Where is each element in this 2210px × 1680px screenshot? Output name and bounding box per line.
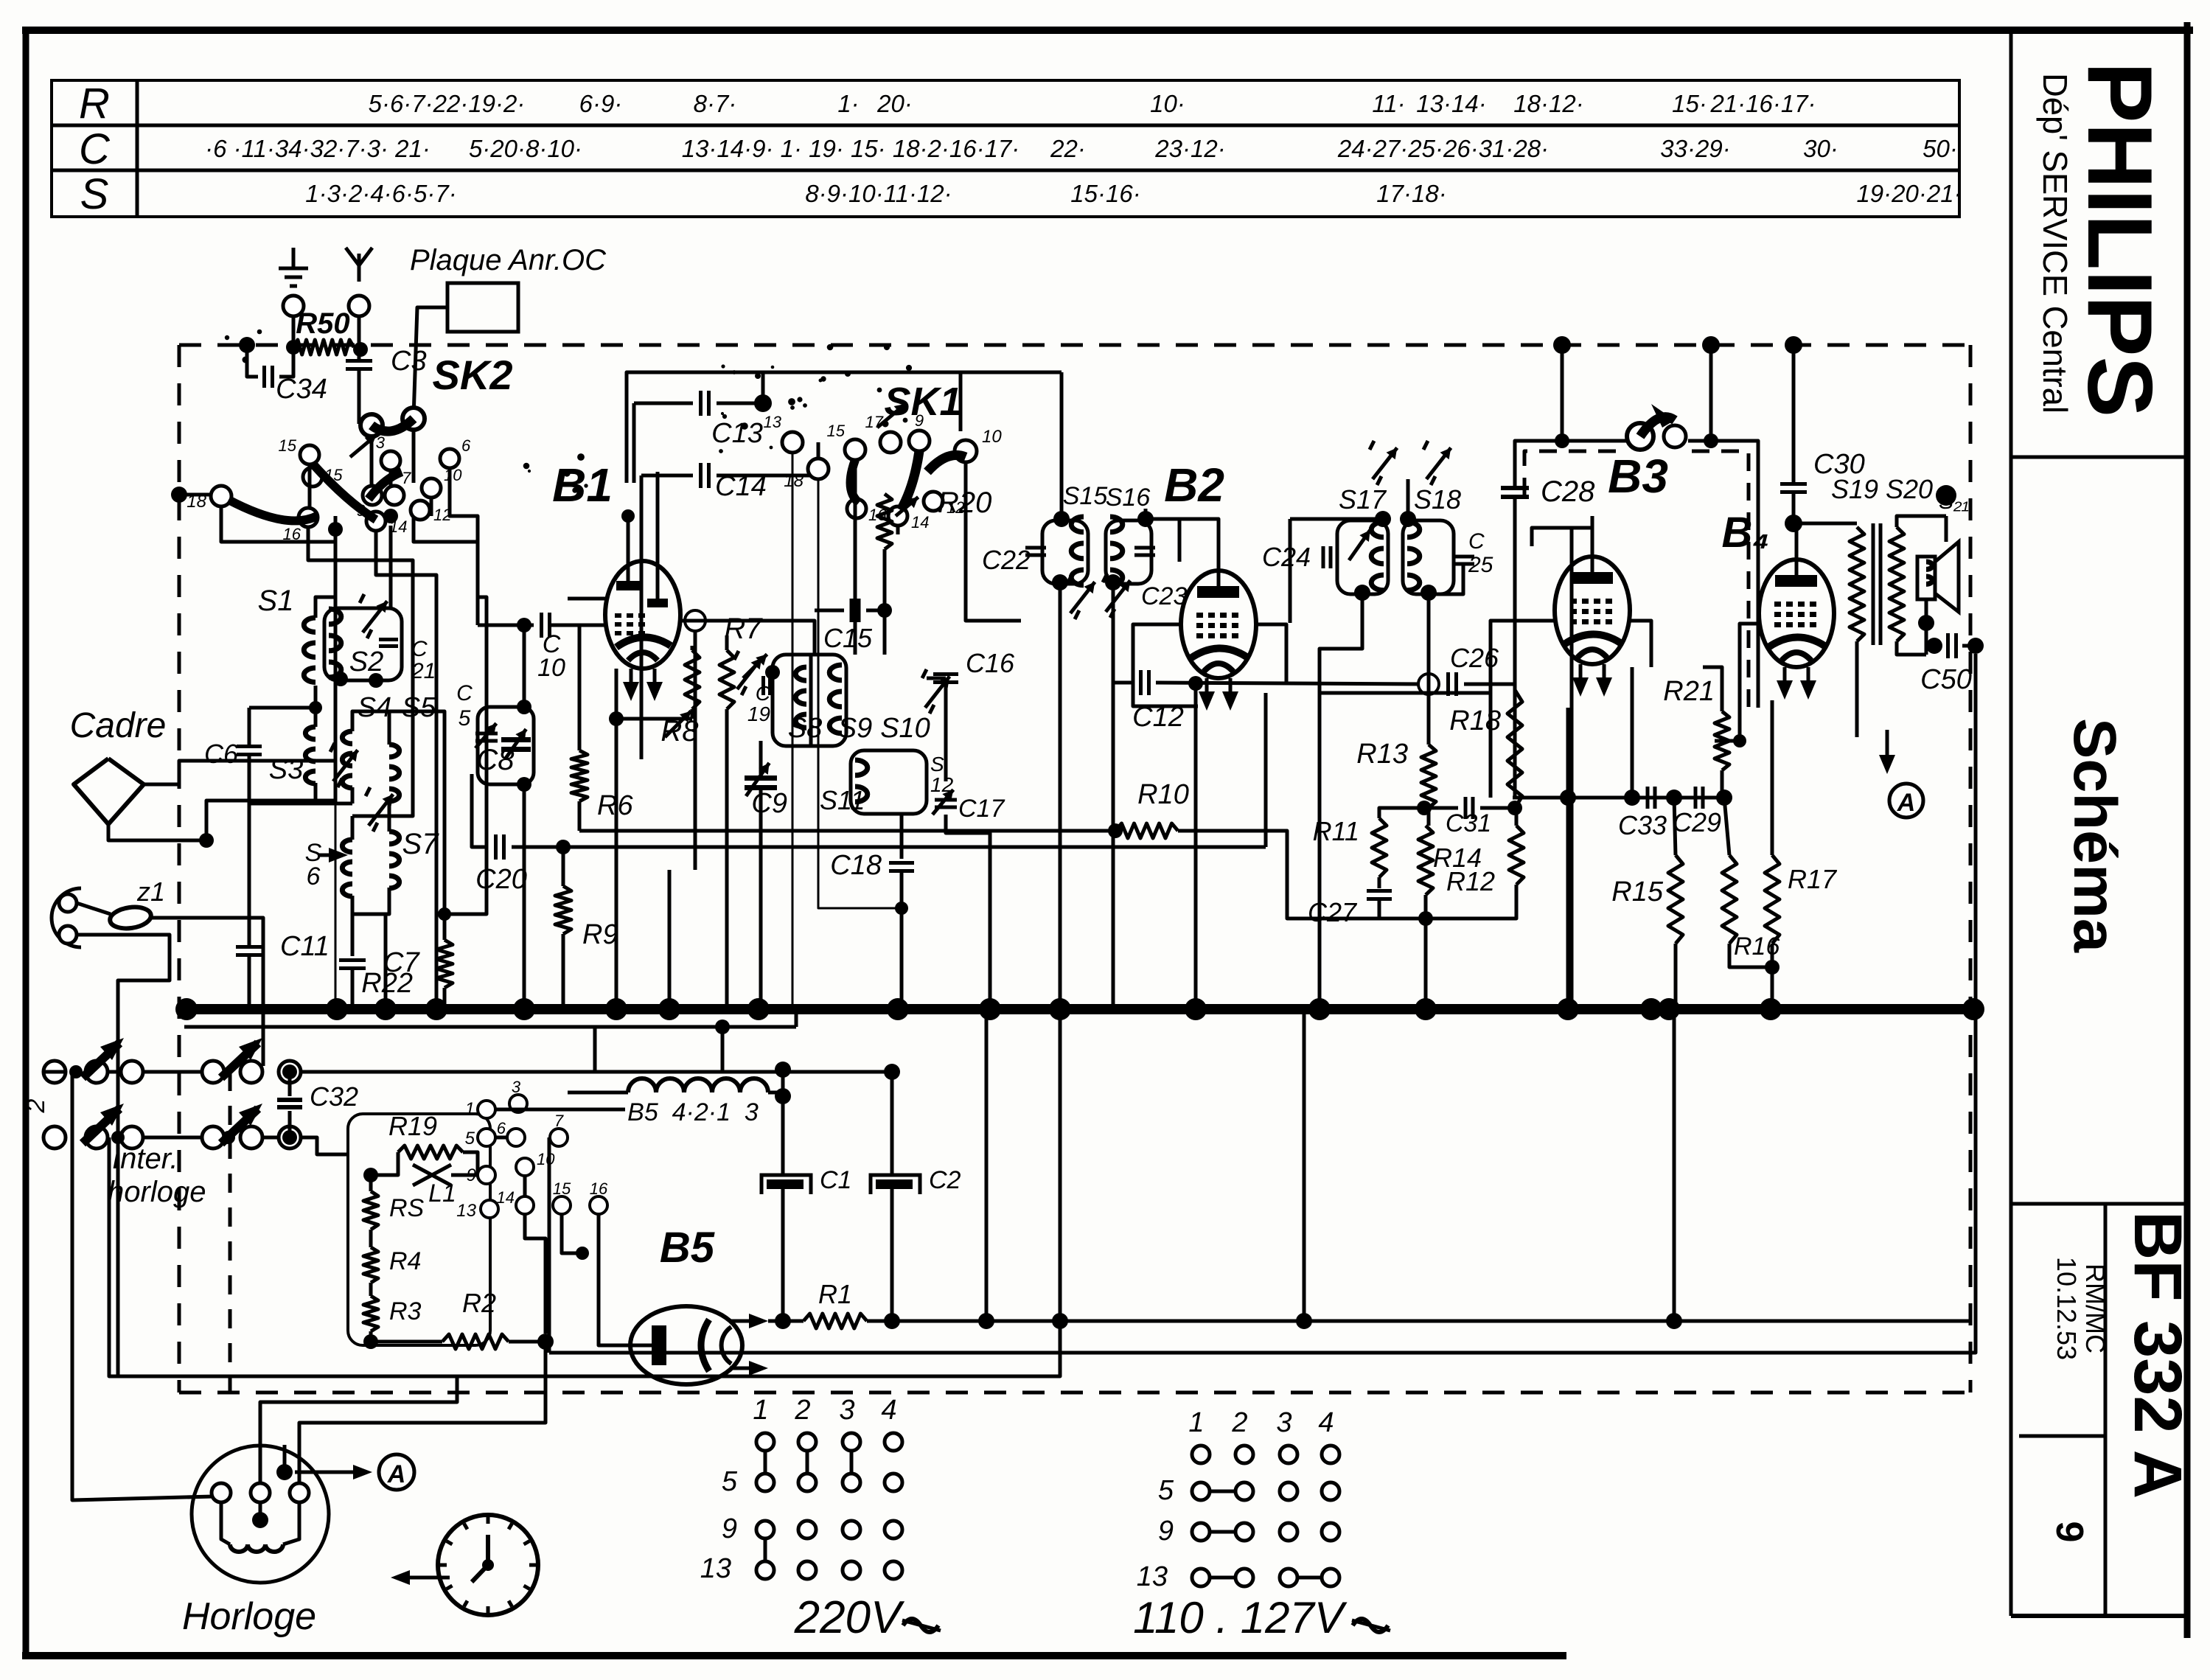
svg-text:Schéma: Schéma: [2061, 718, 2128, 953]
ground terminal: [283, 296, 304, 316]
svg-text:S5: S5: [402, 692, 436, 723]
svg-text:13: 13: [764, 413, 782, 431]
svg-text:6: 6: [461, 436, 471, 455]
svg-text:C50: C50: [1920, 664, 1972, 695]
svg-text:S10: S10: [880, 713, 930, 744]
svg-text:5: 5: [459, 706, 471, 731]
resistor R22: [443, 914, 447, 940]
wire sk2 to S1 coils: [221, 506, 335, 652]
svg-text:S₂₁: S₂₁: [1939, 489, 1969, 514]
svg-text:16: 16: [590, 1179, 608, 1198]
svg-text:C1: C1: [820, 1166, 851, 1194]
B5 heater return vertical: [548, 1137, 551, 1353]
svg-text:15·16·: 15·16·: [1070, 180, 1140, 207]
capacitor C34: [262, 366, 266, 388]
svg-text:2: 2: [1231, 1407, 1247, 1438]
svg-text:220V: 220V: [794, 1592, 905, 1643]
svg-text:Inter.: Inter.: [112, 1143, 178, 1175]
bus junction x=1622: [1185, 998, 1207, 1020]
resistor R21: [1715, 711, 1729, 770]
svg-text:9: 9: [1158, 1516, 1174, 1547]
svg-text:8·7·: 8·7·: [694, 90, 737, 117]
svg-text:BF 332 A: BF 332 A: [2120, 1211, 2195, 1499]
svg-text:Horloge: Horloge: [182, 1595, 316, 1638]
resistor R1: [775, 1313, 791, 1329]
svg-text:C27: C27: [1308, 897, 1358, 927]
table row R values: [369, 90, 1816, 117]
A terminal bottom: [276, 1464, 293, 1480]
svg-text:Dép' SERVICE Central: Dép' SERVICE Central: [2036, 73, 2074, 414]
svg-text:10: 10: [444, 466, 462, 484]
coil S2 / C21 box: [324, 608, 402, 680]
svg-text:S: S: [80, 170, 109, 218]
svg-text:4: 4: [1318, 1407, 1334, 1438]
svg-text:B5: B5: [660, 1224, 715, 1272]
bus junction x=1029: [747, 998, 770, 1020]
svg-text:5: 5: [1158, 1475, 1174, 1506]
svg-text:3: 3: [1276, 1407, 1292, 1438]
svg-text:PHILIPS: PHILIPS: [2068, 62, 2170, 417]
svg-text:C23: C23: [1141, 582, 1187, 610]
svg-text:14: 14: [497, 1188, 515, 1207]
parts table frame: [52, 80, 1959, 217]
svg-text:10.12.53: 10.12.53: [2052, 1257, 2082, 1360]
svg-text:1: 1: [1188, 1407, 1204, 1438]
svg-text:R3: R3: [389, 1297, 422, 1325]
SK1 contacts: [782, 432, 803, 453]
svg-text:R10: R10: [1137, 779, 1189, 810]
horloge feed wires: [72, 1072, 214, 1500]
svg-text:C11: C11: [280, 931, 330, 962]
resistor R13: [1421, 745, 1436, 808]
title block separator: [2009, 30, 2013, 1616]
svg-text:R13: R13: [1356, 739, 1408, 770]
svg-text:6: 6: [307, 862, 321, 890]
svg-text:B2: B2: [1164, 459, 1224, 512]
bus junction x=592: [425, 998, 447, 1020]
svg-text:10·: 10·: [1150, 90, 1185, 117]
capacitor C21: [379, 638, 398, 641]
svg-text:R21: R21: [1663, 676, 1715, 707]
svg-text:R6: R6: [597, 790, 633, 821]
resistor R8: [685, 650, 700, 709]
svg-text:B₄: B₄: [1721, 509, 1769, 557]
inner dashed partition: [229, 1072, 232, 1393]
B5 heater coil: [628, 1078, 656, 1092]
svg-text:1·3·2·4·6·5·7·: 1·3·2·4·6·5·7·: [305, 180, 456, 207]
resistor R6: [578, 625, 582, 750]
capacitor C3: [358, 349, 361, 360]
resistor R7: [719, 650, 734, 709]
bus junction x=523: [374, 998, 397, 1020]
bus junction x=1934: [1415, 998, 1437, 1020]
svg-text:13: 13: [1137, 1561, 1168, 1592]
node S18 detector: [1423, 678, 1435, 690]
resistor R12: [1509, 826, 1524, 885]
resistor R16: [1722, 855, 1737, 944]
bus junction x=836: [605, 998, 627, 1020]
vertical wires right section: [1566, 708, 1570, 1009]
svg-text:3: 3: [512, 1078, 521, 1096]
svg-text:9: 9: [467, 1165, 476, 1185]
cadre wires: [144, 761, 335, 784]
capacitor C7: [351, 914, 355, 956]
bus junction x=1343: [979, 998, 1001, 1020]
bus junction x=2402: [1760, 998, 1782, 1020]
svg-text:A: A: [387, 1460, 406, 1488]
bus junction x=2264: [1658, 998, 1680, 1020]
chassis dashed box left edge: [178, 345, 181, 1393]
capacitor C2 electrolytic: [890, 1072, 894, 1174]
svg-text:C29: C29: [1673, 807, 1721, 837]
svg-text:R11: R11: [1313, 816, 1359, 846]
svg-text:21·16·17·: 21·16·17·: [1709, 90, 1816, 117]
capacitor C26: [1446, 672, 1450, 696]
table row C values: [205, 135, 1958, 162]
bus junction x=711: [513, 998, 535, 1020]
resistor R11: [1379, 808, 1424, 818]
svg-text:C3: C3: [391, 346, 427, 377]
SK1 long verticals: [792, 453, 794, 1009]
svg-text:18·12·: 18·12·: [1513, 90, 1583, 117]
resistor R3: [363, 1296, 378, 1331]
chassis dashed box top edge: [179, 344, 1970, 347]
bus junction x=253: [175, 998, 198, 1020]
svg-text:C16: C16: [966, 648, 1015, 678]
capacitor C16: [927, 677, 946, 680]
capacitor C30: [1780, 482, 1807, 486]
shield box dashed: [1515, 441, 1627, 487]
scan speckles (decorative): [755, 373, 761, 379]
svg-text:R9: R9: [582, 919, 618, 950]
wire to B2 cathode: [1264, 693, 1268, 847]
svg-text:5: 5: [465, 1129, 475, 1149]
capacitor C13: [634, 402, 693, 405]
SK2 rotor levers: [229, 500, 317, 520]
svg-text:C12: C12: [1132, 702, 1184, 733]
B3 grid wires: [1491, 621, 1555, 693]
svg-text:3: 3: [839, 1395, 854, 1426]
capacitor C27: [1378, 877, 1381, 888]
svg-text:C9: C9: [751, 788, 787, 819]
bus junction x=908: [658, 998, 680, 1020]
svg-text:R2: R2: [462, 1288, 496, 1318]
border frame: [22, 27, 2193, 34]
svg-text:C17: C17: [958, 795, 1005, 823]
B1 cathode wires to bus: [616, 669, 692, 719]
capacitor C1 electrolytic: [781, 1072, 785, 1174]
resistor R2: [442, 1334, 509, 1349]
heater return wire y=1835: [549, 654, 1976, 1353]
capacitor C20: [472, 774, 488, 847]
resistor R14: [1417, 801, 1432, 815]
capacitor C9 variable: [745, 775, 777, 781]
svg-text:25: 25: [1468, 553, 1493, 577]
svg-text:50·: 50·: [1923, 135, 1958, 162]
svg-text:22·: 22·: [1050, 135, 1086, 162]
wires S17 S18: [1290, 517, 1383, 521]
bus junction x=2127: [1557, 998, 1579, 1020]
capacitor C29: [1694, 787, 1698, 809]
svg-text:13·14·9· 1· 19· 15· 18·2·16·17: 13·14·9· 1· 19· 15· 18·2·16·17·: [682, 135, 1020, 162]
node line C33 C29: [1560, 790, 1576, 806]
lamp L1: [413, 1165, 451, 1185]
svg-text:15: 15: [553, 1179, 571, 1198]
switch row 2: [43, 1126, 66, 1149]
svg-text:1: 1: [465, 1099, 475, 1119]
shield switch: [1627, 423, 1653, 450]
svg-text:·6 ·11·34·32·7·3· 21·: ·6 ·11·34·32·7·3· 21·: [205, 135, 431, 162]
SK2 wires down: [308, 464, 312, 508]
svg-text:6: 6: [497, 1119, 506, 1137]
bus junction x=1790: [1308, 998, 1331, 1020]
svg-text:S7: S7: [402, 828, 440, 860]
svg-text:C20: C20: [475, 864, 527, 895]
svg-text:9: 9: [722, 1513, 737, 1544]
wires S-coil block: [334, 652, 338, 708]
svg-text:9: 9: [915, 411, 924, 430]
svg-text:R7: R7: [724, 613, 763, 645]
svg-text:23·12·: 23·12·: [1154, 135, 1225, 162]
B2 cathode wire to bus: [1194, 683, 1198, 1009]
svg-text:R: R: [79, 80, 110, 128]
tank S16 C23: [1106, 520, 1151, 584]
svg-text:20·: 20·: [876, 90, 913, 117]
svg-text:C18: C18: [830, 850, 882, 881]
svg-text:C6: C6: [204, 739, 239, 769]
svg-text:R17: R17: [1788, 864, 1838, 894]
svg-text:7: 7: [554, 1112, 564, 1130]
svg-text:15: 15: [827, 422, 846, 440]
svg-text:C34: C34: [276, 374, 327, 405]
svg-text:15: 15: [279, 436, 297, 455]
svg-text:8·9·10·11·12·: 8·9·10·11·12·: [805, 180, 952, 207]
svg-text:RS: RS: [389, 1194, 425, 1222]
resistor R18: [1507, 690, 1522, 808]
wire S16 to B2 grid: [1144, 509, 1148, 519]
bus junction x=2240: [1640, 998, 1662, 1020]
capacitor C17: [935, 798, 957, 802]
chassis dashed box bottom edge: [179, 1391, 1970, 1395]
resistor R4: [363, 1247, 378, 1283]
resistor R15: [1668, 855, 1683, 944]
svg-text:S15: S15: [1063, 482, 1108, 510]
svg-text:B1: B1: [552, 459, 613, 512]
resistor R17: [1765, 855, 1779, 944]
svg-text:10: 10: [537, 1150, 555, 1168]
tank C22 S15: [1042, 520, 1088, 584]
ground symbol: [292, 248, 296, 268]
main lower wires: [301, 1070, 625, 1074]
wire C17 to bus: [946, 815, 990, 1009]
svg-text:C28: C28: [1541, 475, 1595, 508]
svg-text:S4: S4: [358, 692, 391, 723]
clock: [438, 1515, 538, 1615]
svg-text:R12: R12: [1446, 866, 1495, 896]
svg-text:S18: S18: [1414, 484, 1461, 515]
A terminal right: [1886, 730, 1889, 764]
svg-text:C: C: [79, 125, 111, 173]
Plaque Ant.OC box: [447, 283, 518, 332]
svg-text:S1: S1: [258, 585, 294, 617]
svg-text:110 . 127V: 110 . 127V: [1133, 1593, 1348, 1642]
svg-text:6·9·: 6·9·: [579, 90, 623, 117]
B4 grid wire: [1715, 624, 1759, 741]
plate supply wire y=940: [1320, 691, 1491, 695]
svg-text:S3: S3: [269, 754, 303, 785]
svg-text:C14: C14: [715, 471, 767, 502]
misc long verticals: [384, 914, 388, 1009]
svg-text:S17: S17: [1339, 484, 1387, 515]
svg-text:S20: S20: [1886, 474, 1933, 504]
svg-text:R4: R4: [389, 1247, 421, 1275]
svg-text:R18: R18: [1449, 705, 1501, 736]
resistor R5: [363, 1191, 378, 1230]
svg-text:10: 10: [537, 654, 565, 682]
R19 network box: [348, 1114, 490, 1345]
switch row 1: [43, 1061, 66, 1083]
svg-text:z1: z1: [136, 876, 165, 907]
svg-text:11·: 11·: [1372, 90, 1405, 117]
capacitor C6: [237, 745, 262, 748]
trimmer for S2: [363, 601, 387, 632]
svg-text:S19: S19: [1831, 474, 1878, 504]
svg-text:19·20·21·: 19·20·21·: [1856, 180, 1962, 207]
svg-text:4: 4: [881, 1395, 896, 1426]
long verticals to lower rails: [985, 1009, 989, 1321]
svg-text:S16: S16: [1106, 484, 1151, 512]
svg-text:SK2: SK2: [433, 352, 513, 398]
svg-text:C32: C32: [310, 1081, 358, 1112]
svg-text:9: 9: [2048, 1522, 2091, 1543]
svg-text:C8: C8: [476, 744, 515, 776]
svg-text:5: 5: [722, 1466, 738, 1497]
svg-text:horloge: horloge: [108, 1176, 206, 1208]
svg-text:C: C: [1468, 529, 1485, 554]
bus junction x=1438: [1049, 998, 1071, 1020]
svg-text:R15: R15: [1611, 876, 1664, 907]
svg-text:A: A: [1897, 789, 1916, 817]
svg-text:17: 17: [865, 413, 884, 431]
capacitor C50: [1926, 638, 1942, 654]
chassis dashed box right edge: [1969, 345, 1973, 1393]
capacitor C14: [641, 474, 693, 478]
capacitor C15: [815, 609, 844, 613]
bus junction x=1218: [887, 998, 909, 1020]
svg-text:C: C: [456, 681, 473, 705]
svg-text:C15: C15: [823, 623, 873, 653]
svg-text:Plaque Anr.OC: Plaque Anr.OC: [410, 244, 607, 276]
SK1 rotor levers: [851, 460, 859, 503]
capacitor C18: [900, 814, 904, 859]
B2 grid wire: [1133, 624, 1198, 706]
svg-text:13·14·: 13·14·: [1416, 90, 1486, 117]
svg-text:33·29·: 33·29·: [1660, 135, 1730, 162]
svg-text:30·: 30·: [1803, 135, 1838, 162]
wire from dashed edge to contact 18: [171, 487, 187, 503]
svg-text:B5 4·2·1 3: B5 4·2·1 3: [627, 1098, 759, 1126]
Horloge motor: [192, 1446, 329, 1583]
capacitor C12: [1113, 681, 1134, 685]
svg-text:C2: C2: [929, 1166, 961, 1194]
svg-text:3: 3: [376, 433, 386, 452]
svg-text:19: 19: [747, 703, 770, 725]
svg-text:S2: S2: [349, 646, 383, 677]
B2 right pin wire: [1256, 624, 1286, 683]
resistor R50: [293, 340, 354, 355]
svg-text:L1: L1: [428, 1179, 456, 1207]
svg-text:C24: C24: [1262, 542, 1311, 572]
resistor R20: [896, 526, 900, 534]
svg-text:10: 10: [982, 427, 1002, 447]
svg-text:2: 2: [22, 1098, 50, 1113]
svg-text:13: 13: [700, 1553, 731, 1584]
svg-text:5·6·7·22·19·2·: 5·6·7·22·19·2·: [369, 90, 526, 117]
wires from pins: [495, 1108, 625, 1112]
svg-text:Cadre: Cadre: [70, 706, 167, 745]
svg-text:5·20·8·10·: 5·20·8·10·: [469, 135, 582, 162]
svg-text:C13: C13: [711, 418, 763, 449]
capacitor C28: [1501, 486, 1529, 490]
grid box around SK1: [627, 372, 1062, 483]
capacitor C32: [282, 1064, 297, 1079]
resistor R9: [555, 886, 571, 934]
junction dots on chassis top: [1553, 336, 1571, 354]
capacitor C10: [478, 624, 534, 627]
svg-text:1·: 1·: [837, 90, 859, 117]
svg-text:R1: R1: [818, 1279, 852, 1309]
svg-text:S: S: [930, 753, 944, 775]
svg-text:C31: C31: [1446, 809, 1491, 837]
svg-text:B3: B3: [1608, 450, 1668, 503]
capacitor C11: [248, 804, 251, 945]
svg-text:13: 13: [456, 1201, 476, 1221]
svg-text:18: 18: [784, 471, 804, 491]
table row S values: [305, 180, 1962, 207]
B1 plate wire: [656, 472, 660, 561]
wire C34 branch: [247, 345, 258, 377]
resistor R10: [1108, 823, 1123, 838]
svg-text:15·: 15·: [1672, 90, 1707, 117]
svg-text:1: 1: [753, 1395, 768, 1426]
bus junction x=2677: [1962, 998, 1984, 1020]
svg-text:S11: S11: [820, 785, 865, 815]
antenna symbol: [358, 254, 361, 282]
antenna terminal: [349, 296, 369, 316]
wire plaque to SK2: [414, 307, 447, 417]
capacitor C31: [1424, 806, 1458, 810]
svg-text:7: 7: [402, 469, 411, 487]
bus junction x=457: [326, 998, 348, 1020]
main ground bus: [184, 1004, 1973, 1014]
terminal pins column: [478, 1101, 495, 1118]
svg-text:14: 14: [911, 513, 929, 531]
svg-text:2: 2: [794, 1395, 810, 1426]
svg-text:C22: C22: [982, 545, 1031, 575]
B1 output junction: [689, 615, 701, 627]
svg-text:24·27·25·26·31·28·: 24·27·25·26·31·28·: [1337, 135, 1549, 162]
svg-text:R19: R19: [388, 1111, 437, 1141]
svg-text:C33: C33: [1618, 810, 1667, 840]
svg-text:R50: R50: [296, 307, 349, 340]
svg-text:17·18·: 17·18·: [1376, 180, 1446, 207]
Cadre loop antenna: [74, 759, 144, 824]
svg-text:RM/MC: RM/MC: [2080, 1264, 2110, 1353]
capacitor C33: [1646, 787, 1650, 809]
